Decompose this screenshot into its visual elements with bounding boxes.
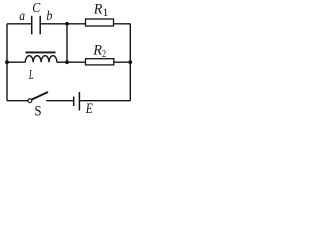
- resistor R2 box: [86, 59, 114, 65]
- wire bottom right segment (battery to right rail): [80, 100, 130, 102]
- battery E short plate: [73, 97, 75, 107]
- wire middle left segment (left rail to inductor): [7, 61, 26, 63]
- svg-text:R: R: [93, 2, 103, 18]
- resistor R1 box: [86, 19, 114, 26]
- svg-text:S: S: [34, 104, 41, 118]
- wire bottom middle segment (switch to battery): [46, 100, 73, 102]
- switch S blade: [32, 92, 49, 100]
- svg-text:1: 1: [103, 7, 109, 19]
- svg-text:R: R: [92, 43, 102, 59]
- svg-text:2: 2: [102, 48, 106, 60]
- svg-text:b: b: [46, 9, 52, 24]
- wire left rail: [6, 24, 8, 101]
- wire middle segment (inductor to junction and R2): [57, 61, 86, 63]
- inductor L core bar: [26, 51, 56, 53]
- wire middle right segment (R2 to right rail): [114, 61, 131, 63]
- inductor L coil: [25, 56, 57, 63]
- node junction dot middle center: [65, 60, 69, 64]
- svg-text:C: C: [32, 1, 41, 16]
- wire bottom left segment: [7, 100, 28, 102]
- capacitor C plates: [32, 16, 41, 35]
- wire top middle segment (capacitor to junction and R1): [40, 23, 86, 25]
- wire top right segment (R1 to right rail): [113, 23, 130, 25]
- svg-text:E: E: [85, 101, 93, 117]
- node junction dot top: [65, 22, 69, 26]
- node junction dot middle right: [128, 60, 132, 64]
- wire top left segment (left rail to capacitor): [7, 23, 32, 25]
- wire right rail: [129, 24, 131, 101]
- svg-text:L: L: [28, 68, 34, 83]
- svg-text:a: a: [19, 8, 25, 23]
- switch S contact circle: [28, 99, 32, 103]
- node junction dot middle left: [5, 60, 9, 64]
- battery E long plate: [78, 92, 80, 111]
- wire inner vertical rail: [66, 24, 68, 62]
